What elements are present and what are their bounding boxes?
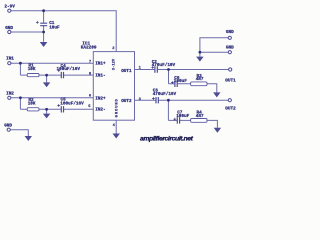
C7 plus sign <box>173 118 176 121</box>
svg-text:2: 2 <box>112 47 115 51</box>
svg-text:OUT1: OUT1 <box>121 69 132 74</box>
terminal GND right 2 <box>228 51 231 54</box>
svg-text:100uF/16V: 100uF/16V <box>57 67 81 72</box>
wire IN2 drop to R2 row <box>19 98 21 110</box>
svg-text:3-12V: 3-12V <box>112 58 116 70</box>
capacitor C2 <box>155 66 157 72</box>
C6 plus sign <box>171 81 174 84</box>
op-amp IC1 KA2209 body <box>93 52 134 121</box>
C2 plus sign <box>151 66 154 69</box>
svg-text:10K: 10K <box>28 67 36 72</box>
capacitor C3 <box>156 97 158 103</box>
C1 plus sign <box>36 21 39 24</box>
capacitor C5 <box>61 106 63 112</box>
svg-text:4R7: 4R7 <box>196 114 204 119</box>
svg-text:IN2-: IN2- <box>95 108 105 113</box>
C3 plus sign <box>152 97 155 100</box>
svg-text:10uF: 10uF <box>49 26 60 31</box>
svg-text:OUT2: OUT2 <box>121 99 132 104</box>
svg-text:amplifiercircuit.net: amplifiercircuit.net <box>140 136 194 143</box>
wire C1 stems <box>43 11 45 42</box>
svg-text:4: 4 <box>113 124 116 128</box>
junction IN2 / R2 <box>19 96 22 99</box>
terminal OUT2 <box>228 99 231 102</box>
svg-text:100uF: 100uF <box>174 79 187 84</box>
wire IN1 drop to R1 row <box>19 63 21 75</box>
capacitor C6 <box>175 81 177 87</box>
terminal OUT1 <box>229 68 232 71</box>
svg-text:7: 7 <box>89 60 92 64</box>
svg-text:GROUND: GROUND <box>116 98 120 117</box>
svg-text:IN2: IN2 <box>6 92 14 97</box>
resistor R1 <box>27 74 39 77</box>
C5 plus sign <box>57 104 60 107</box>
junction R2 / C5 / ground <box>45 108 48 111</box>
junction V+ / C1 <box>42 9 45 12</box>
wire IN2 line to pin 6 <box>11 97 93 99</box>
wire GND terminal to C1 node <box>11 31 44 33</box>
terminal GND right 1 <box>228 36 231 39</box>
wire V+ rail <box>11 11 116 52</box>
svg-text:4R7: 4R7 <box>196 77 204 82</box>
svg-text:IN1-: IN1- <box>95 74 105 79</box>
svg-text:GND: GND <box>5 26 13 31</box>
terminal 2-9V <box>8 9 11 12</box>
ground zobel1 <box>213 92 220 97</box>
junction OUT2 / zobel2 <box>167 99 170 102</box>
ground at IC pin 4 <box>113 134 120 139</box>
svg-text:470uF/16V: 470uF/16V <box>153 92 177 97</box>
wire zobel1 drop <box>168 70 170 84</box>
junction R1 / C4 / ground <box>45 74 48 77</box>
junction right GND <box>199 51 202 54</box>
resistor R4 <box>191 119 207 123</box>
ground at R1 node <box>43 75 50 87</box>
svg-text:KA2209: KA2209 <box>81 45 97 50</box>
wire zobel2 row <box>168 120 217 127</box>
svg-text:IN1+: IN1+ <box>95 62 106 67</box>
wire IC pin 4 stem <box>115 120 117 133</box>
ground bottom-left <box>25 136 32 141</box>
wire IN1 line to pin 7 <box>11 62 93 64</box>
resistor R2 <box>27 108 39 111</box>
wire OUT2 line <box>135 99 229 101</box>
capacitor C1 <box>40 23 47 26</box>
terminal GND bottom-left <box>7 128 10 131</box>
svg-text:470uF/10V: 470uF/10V <box>152 63 176 68</box>
svg-text:10K: 10K <box>28 102 36 107</box>
svg-text:IN1: IN1 <box>6 57 14 62</box>
svg-text:GND: GND <box>226 30 234 35</box>
capacitor C4 <box>61 72 63 78</box>
svg-text:GND: GND <box>226 46 234 51</box>
junction OUT1 / zobel1 <box>167 68 170 71</box>
junction GND / C1 <box>42 31 45 34</box>
wire IN2 bottom row <box>20 108 93 110</box>
junction IN1 / R1 <box>19 62 22 65</box>
capacitor C7 <box>177 117 179 123</box>
svg-text:8: 8 <box>89 72 92 76</box>
svg-text:GND: GND <box>4 123 12 128</box>
svg-text:100uF/16V: 100uF/16V <box>60 101 84 106</box>
wire right GND terminals <box>200 38 228 57</box>
svg-text:5: 5 <box>88 105 91 109</box>
wire bottom-left GND <box>10 130 28 136</box>
svg-text:100uF: 100uF <box>176 114 189 119</box>
wire OUT1 line <box>135 69 229 71</box>
wire zobel2 drop <box>167 100 169 120</box>
C4 plus sign <box>57 69 60 72</box>
terminal IN2 <box>8 96 11 99</box>
svg-text:IN2+: IN2+ <box>95 96 106 101</box>
ground at right GND terminals <box>196 57 203 62</box>
svg-text:OUT1: OUT1 <box>225 79 236 84</box>
ground under C1 <box>40 42 48 47</box>
resistor R3 <box>191 82 207 86</box>
svg-text:OUT2: OUT2 <box>225 107 236 112</box>
wire zobel1 row <box>169 84 217 93</box>
terminal GND left <box>8 30 11 33</box>
svg-text:2-9V: 2-9V <box>4 5 15 10</box>
terminal IN1 <box>8 62 11 65</box>
wire IN1 bottom row <box>20 74 93 76</box>
ground zobel2 <box>214 128 221 133</box>
ground at R2 node <box>43 109 50 118</box>
